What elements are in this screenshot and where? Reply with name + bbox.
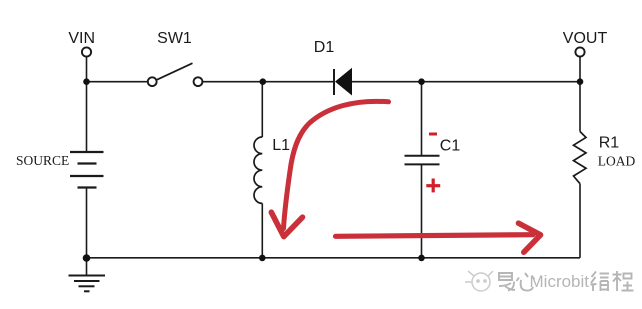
- wire L1 column lower: [261, 203, 263, 257]
- ground: [69, 276, 106, 292]
- node L1 top junction: [260, 78, 267, 85]
- svg-text:VOUT: VOUT: [563, 30, 608, 47]
- svg-text:R1: R1: [599, 135, 620, 152]
- node C1 bottom junction: [418, 255, 425, 262]
- svg-text:VIN: VIN: [68, 30, 95, 47]
- node ground junction: [83, 254, 91, 262]
- wire C1 column lower: [421, 165, 423, 258]
- diode D1: [334, 69, 352, 95]
- svg-text:L1: L1: [272, 137, 290, 154]
- node VIN junction: [83, 78, 90, 85]
- node C1 top junction: [418, 78, 425, 85]
- svg-text:C1: C1: [440, 138, 461, 155]
- resistor R1: [574, 132, 587, 184]
- glyph bian: [591, 272, 610, 292]
- wire top: diode to VOUT corner: [352, 81, 581, 83]
- red current arrow straight (bottom, to load): [336, 223, 541, 252]
- capacitor C1 plates: [405, 156, 440, 165]
- capacitor polarity minus (red): [429, 133, 437, 136]
- glyph xin: [517, 273, 535, 291]
- svg-text:Microbit: Microbit: [530, 272, 590, 291]
- capacitor polarity plus (red): [426, 179, 440, 193]
- svg-text:SOURCE: SOURCE: [16, 153, 69, 168]
- wire top: VIN node to switch: [87, 81, 148, 83]
- red current arrow curved (through L1): [271, 101, 388, 236]
- wire top: switch to diode: [203, 81, 335, 83]
- wire left column to battery: [86, 82, 88, 152]
- glyph yi: [499, 273, 515, 291]
- wire bottom rail: [87, 257, 581, 259]
- node L1 bottom junction: [259, 255, 266, 262]
- watermark logo: [465, 271, 493, 291]
- node VOUT junction: [577, 78, 584, 85]
- terminal VIN circle: [82, 47, 91, 56]
- terminal VOUT circle: [575, 47, 584, 56]
- wire C1 column upper: [421, 82, 423, 155]
- wire right column to R1: [579, 82, 581, 132]
- wire R1 to bottom rail: [579, 184, 581, 258]
- wire VOUT terminal stem: [579, 57, 581, 82]
- battery SOURCE: [70, 152, 104, 188]
- svg-text:SW1: SW1: [157, 30, 192, 47]
- watermark text: [499, 271, 634, 291]
- wire L1 column upper: [261, 82, 263, 137]
- svg-text:LOAD: LOAD: [598, 153, 636, 168]
- glyph cheng: [613, 271, 634, 291]
- wire VIN terminal stem: [86, 57, 88, 82]
- switch SW1: [148, 63, 203, 86]
- svg-text:D1: D1: [314, 39, 335, 56]
- inductor L1: [254, 137, 262, 203]
- wire ground stem: [86, 258, 88, 276]
- wire battery to bottom rail: [86, 188, 88, 258]
